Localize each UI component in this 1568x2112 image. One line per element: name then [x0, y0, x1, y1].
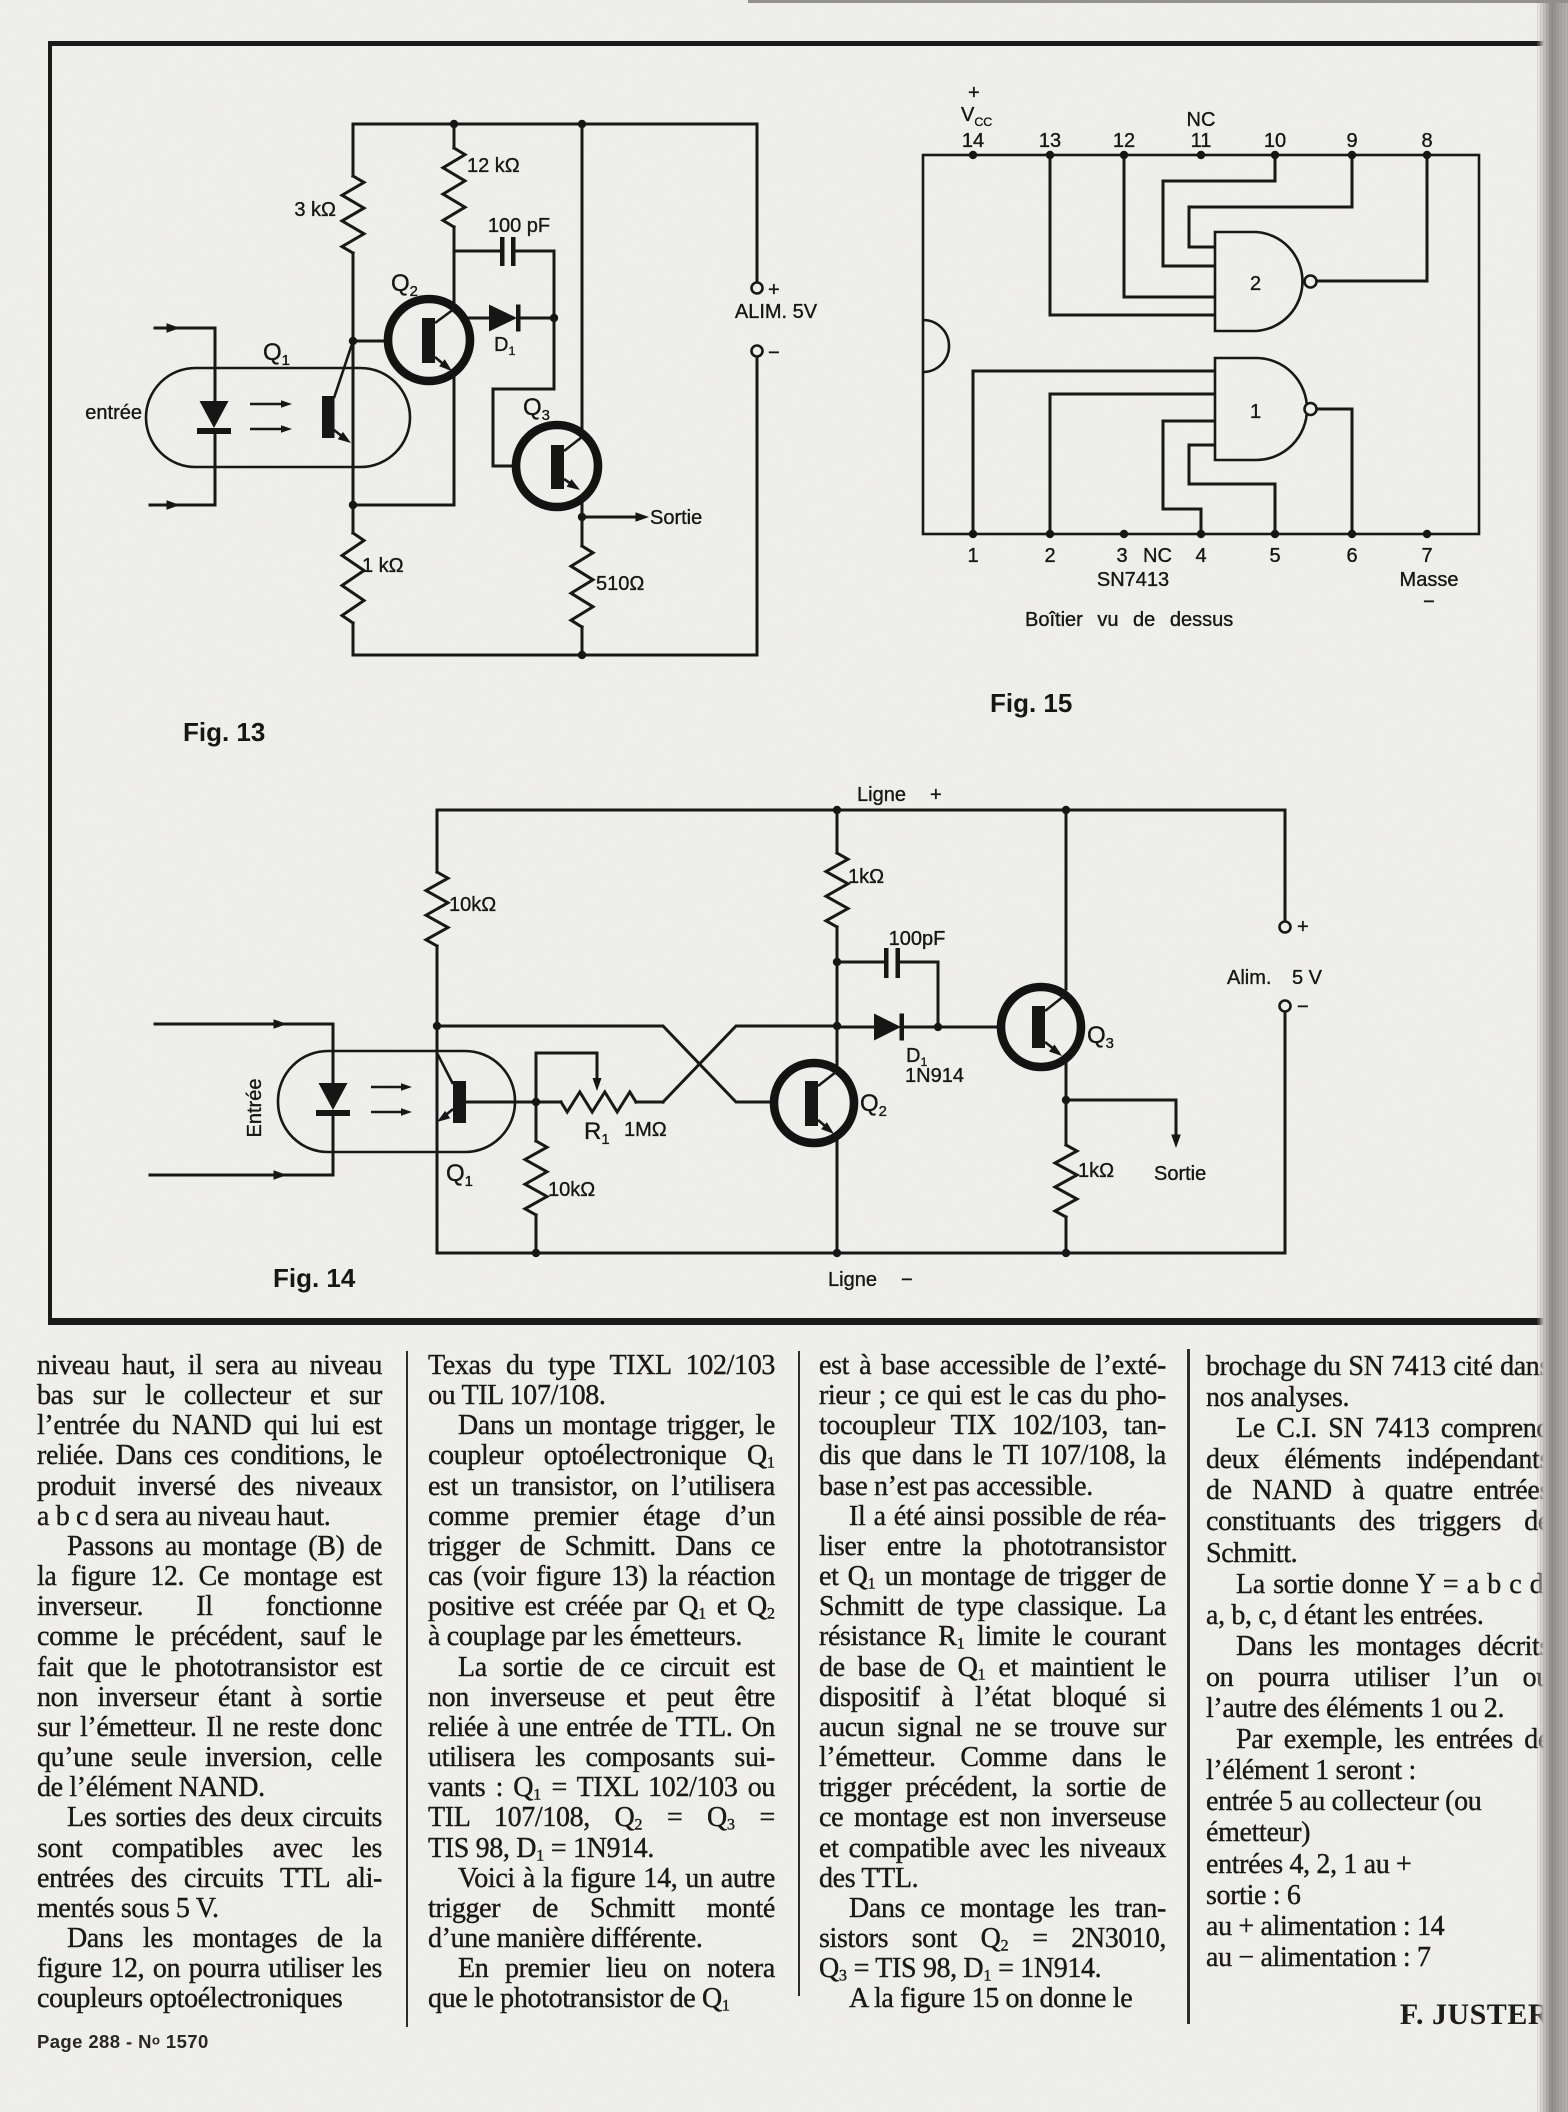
svg-text:entrée: entrée — [85, 402, 142, 424]
svg-text:Ligne: Ligne — [828, 1269, 877, 1291]
svg-text:Fig. 15: Fig. 15 — [990, 688, 1072, 718]
svg-text:Sortie: Sortie — [650, 507, 702, 529]
svg-text:Ligne: Ligne — [857, 784, 906, 806]
svg-text:Q2: Q2 — [860, 1090, 887, 1120]
svg-text:Fig. 14: Fig. 14 — [273, 1263, 356, 1293]
svg-text:10kΩ: 10kΩ — [449, 894, 496, 916]
svg-text:SN7413: SN7413 — [1097, 569, 1169, 591]
svg-text:3 kΩ: 3 kΩ — [294, 199, 336, 221]
svg-text:−: − — [768, 342, 780, 364]
svg-text:Q3: Q3 — [523, 394, 550, 424]
svg-text:−: − — [901, 1269, 913, 1291]
svg-text:VCC: VCC — [961, 104, 992, 129]
svg-text:1: 1 — [1250, 401, 1261, 423]
svg-text:Sortie: Sortie — [1154, 1163, 1206, 1185]
svg-text:10: 10 — [1264, 130, 1286, 152]
svg-text:100pF: 100pF — [889, 928, 946, 950]
svg-text:Boîtier vu de dessus: Boîtier vu de dessus — [1025, 609, 1233, 631]
svg-text:+: + — [1297, 916, 1309, 938]
svg-text:14: 14 — [962, 130, 984, 152]
svg-text:−: − — [1297, 996, 1309, 1018]
svg-text:R1: R1 — [584, 1118, 610, 1148]
svg-text:1kΩ: 1kΩ — [1078, 1160, 1114, 1182]
svg-text:1kΩ: 1kΩ — [848, 866, 884, 888]
svg-text:10kΩ: 10kΩ — [548, 1179, 595, 1201]
svg-text:5: 5 — [1269, 545, 1280, 567]
svg-text:2: 2 — [1250, 273, 1261, 295]
svg-text:Masse: Masse — [1400, 569, 1459, 591]
svg-text:Q1: Q1 — [263, 339, 290, 369]
svg-text:2: 2 — [1044, 545, 1055, 567]
svg-text:Q2: Q2 — [391, 270, 418, 300]
svg-text:Entrée: Entrée — [244, 1079, 266, 1138]
svg-text:8: 8 — [1421, 130, 1432, 152]
svg-text:13: 13 — [1039, 130, 1061, 152]
svg-text:12: 12 — [1113, 130, 1135, 152]
svg-text:NC: NC — [1187, 109, 1216, 131]
svg-text:100 pF: 100 pF — [488, 215, 550, 237]
svg-text:+: + — [930, 784, 942, 806]
svg-text:9: 9 — [1346, 130, 1357, 152]
svg-text:4: 4 — [1195, 545, 1206, 567]
svg-text:Alim.: Alim. — [1227, 967, 1271, 989]
svg-text:ALIM. 5V: ALIM. 5V — [735, 301, 818, 323]
svg-text:510Ω: 510Ω — [596, 573, 644, 595]
svg-text:7: 7 — [1421, 545, 1432, 567]
svg-text:NC: NC — [1143, 545, 1172, 567]
svg-text:Q1: Q1 — [446, 1160, 473, 1190]
svg-text:5 V: 5 V — [1292, 967, 1323, 989]
svg-text:1 kΩ: 1 kΩ — [362, 555, 404, 577]
svg-text:1N914: 1N914 — [905, 1065, 964, 1087]
svg-text:Fig. 13: Fig. 13 — [183, 717, 265, 747]
svg-text:−: − — [1423, 591, 1435, 613]
svg-text:D1: D1 — [494, 334, 515, 358]
svg-text:3: 3 — [1116, 545, 1127, 567]
svg-text:1: 1 — [967, 545, 978, 567]
svg-text:Q3: Q3 — [1087, 1022, 1114, 1052]
svg-text:11: 11 — [1191, 130, 1212, 152]
svg-text:+: + — [968, 82, 980, 104]
svg-text:1MΩ: 1MΩ — [624, 1119, 667, 1141]
svg-text:6: 6 — [1346, 545, 1357, 567]
svg-text:12 kΩ: 12 kΩ — [467, 155, 520, 177]
svg-text:+: + — [768, 279, 780, 301]
